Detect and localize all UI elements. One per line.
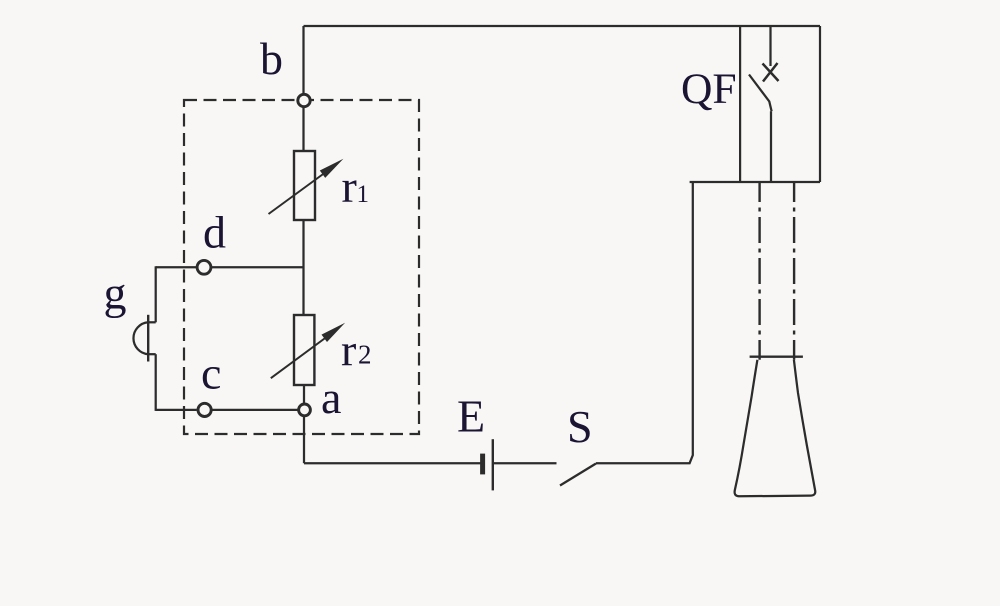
svg-text:r: r — [341, 324, 356, 375]
breaker QF blade — [749, 75, 772, 112]
svg-text:c: c — [201, 348, 221, 399]
node d — [197, 260, 211, 274]
wire node d to left branch — [156, 266, 196, 268]
switch S blade — [560, 464, 596, 486]
wire left branch drop lower — [155, 354, 157, 411]
node a — [299, 404, 311, 416]
battery E short plate — [480, 454, 485, 475]
node b — [298, 94, 310, 106]
svg-text:g: g — [104, 268, 127, 319]
wire left branch drop upper — [155, 266, 157, 322]
wire node c to node a — [212, 409, 297, 411]
resistor r2 body — [294, 315, 314, 385]
breaker QF pole upper lead — [769, 26, 771, 66]
furnace top bar — [750, 356, 803, 358]
wire r1 to r2 through node d tee — [302, 220, 304, 315]
breaker QF pole lower lead — [770, 111, 772, 182]
resistor r1 body — [294, 151, 315, 220]
electrode dash-dot lead left — [758, 182, 760, 360]
wire switch to right riser with chamfer — [596, 182, 693, 463]
svg-text:a: a — [321, 372, 341, 423]
svg-text:d: d — [203, 206, 226, 257]
dashed box around r1 and r2 — [184, 100, 419, 434]
svg-text:QF: QF — [681, 65, 737, 113]
wire node d to center column — [212, 266, 304, 268]
wire node b to resistor r1 — [302, 108, 304, 151]
galvanometer g step bottom — [148, 353, 156, 355]
wire breaker box bottom rail — [690, 181, 820, 183]
svg-text:E: E — [457, 390, 485, 441]
resistor r1 adjustment arrow — [269, 169, 331, 214]
resistor r2 adjustment arrow — [271, 333, 332, 378]
breaker QF box left side — [739, 26, 741, 182]
furnace crucible body — [735, 360, 816, 497]
wire r2 to node a — [303, 385, 305, 403]
electrode dash-dot lead right — [793, 182, 795, 360]
wire bottom bus to battery — [304, 462, 481, 464]
breaker QF contact cross — [763, 63, 779, 82]
breaker QF box right side — [819, 26, 821, 182]
svg-text:1: 1 — [357, 181, 370, 208]
wire left branch to node c — [156, 409, 197, 411]
galvanometer g arc — [133, 322, 148, 354]
svg-text:2: 2 — [358, 340, 372, 370]
wire riser from top bus down to node b — [302, 26, 304, 94]
galvanometer g step top — [148, 321, 156, 323]
wire top bus from node b riser to breaker box right edge — [304, 25, 821, 27]
galvanometer g chord bar — [147, 315, 149, 362]
node c — [198, 403, 211, 416]
svg-text:S: S — [567, 401, 593, 452]
wire battery to switch — [494, 462, 557, 464]
svg-text:b: b — [260, 33, 283, 84]
svg-text:r: r — [342, 161, 357, 212]
battery E long plate — [492, 439, 494, 490]
wire node a down to bottom bus — [303, 417, 305, 463]
